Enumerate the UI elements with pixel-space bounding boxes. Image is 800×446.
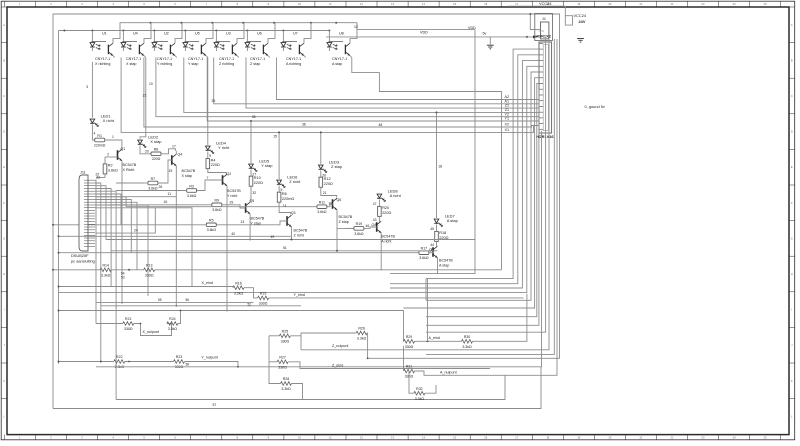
svg-text:25: 25 [212, 99, 216, 103]
svg-text:A_eind: A_eind [429, 336, 440, 340]
svg-text:R31: R31 [406, 365, 413, 369]
svg-text:R26: R26 [358, 327, 365, 331]
svg-text:X richting: X richting [95, 62, 110, 66]
led LED6 Z richt [277, 180, 282, 184]
wire Q2 emitter [226, 186, 228, 311]
svg-text:R22: R22 [116, 355, 123, 359]
svg-text:Z stap: Z stap [331, 164, 343, 169]
wire X_eind [59, 286, 234, 288]
resistor R24 3.3k [167, 322, 178, 326]
svg-text:Q4: Q4 [178, 153, 183, 157]
resistor R27 330 [277, 360, 288, 364]
svg-text:BC547B: BC547B [294, 229, 308, 233]
svg-text:330Ω: 330Ω [405, 345, 414, 349]
wire Q2 collector [226, 173, 228, 175]
wire Z_eind row [269, 361, 277, 363]
svg-text:R7: R7 [151, 177, 156, 181]
led LED5 Y stap [249, 164, 254, 168]
wire J1 pin1 feed [530, 14, 536, 30]
svg-text:330Ω: 330Ω [281, 339, 290, 343]
svg-text:330Ω: 330Ω [124, 327, 133, 331]
svg-text:BC547B: BC547B [251, 217, 265, 221]
svg-text:Q6: Q6 [337, 198, 342, 202]
wire VDD J1 feed [326, 36, 537, 38]
resistor R14 3.3k [100, 268, 111, 272]
wire R3 left [116, 190, 187, 192]
wire Q1 base [105, 156, 118, 158]
svg-text:BC547B: BC547B [381, 235, 395, 239]
wire row 366 [96, 131, 542, 367]
wire anode rail [59, 30, 330, 32]
wire R2 bottom [96, 177, 105, 179]
wire Q8 emitter [380, 233, 382, 270]
svg-text:X richt: X richt [103, 118, 115, 123]
svg-text:35: 35 [252, 115, 256, 119]
wire LED2 to R8 [140, 146, 151, 154]
svg-text:E: E [791, 165, 793, 169]
svg-text:X1: X1 [504, 128, 509, 132]
svg-text:3.6kΩ: 3.6kΩ [212, 208, 222, 212]
svg-text:3.3kΩ: 3.3kΩ [101, 273, 111, 277]
svg-text:4: 4 [94, 132, 96, 136]
optocoupler U4 CNY17-1 X stap [122, 31, 124, 42]
wire Q4 collector [175, 151, 177, 154]
wire pin feed [426, 89, 539, 325]
junction [242, 22, 244, 24]
wire pin feed [426, 49, 539, 279]
resistor R3 3.6k [187, 189, 197, 193]
wire R13 right [155, 269, 502, 271]
svg-text:A: A [791, 23, 793, 27]
transistor Q5 BC547B [245, 203, 247, 213]
svg-text:X_nulpunt: X_nulpunt [142, 330, 159, 334]
svg-text:220mΩ: 220mΩ [282, 197, 294, 201]
wire row 306 [101, 305, 301, 307]
svg-text:Z stap: Z stap [250, 62, 260, 66]
wire row 399 [116, 375, 505, 399]
svg-text:32: 32 [252, 191, 256, 195]
svg-text:R23: R23 [176, 355, 183, 359]
ground top middle [487, 44, 494, 46]
svg-text:BC547B: BC547B [439, 259, 453, 263]
wire LED4 to R4 [207, 152, 209, 159]
svg-text:A richting: A richting [286, 62, 301, 66]
wire Z_nulpunt loop [290, 333, 356, 336]
svg-text:220mΩ: 220mΩ [94, 143, 106, 147]
wire Y_nulpunt [59, 361, 114, 363]
wire feed a [352, 58, 502, 270]
svg-text:CNY17-1: CNY17-1 [250, 57, 265, 61]
svg-text:56: 56 [186, 298, 190, 302]
led LED7 A stap [434, 219, 439, 223]
svg-text:CNY17-1: CNY17-1 [188, 57, 203, 61]
resistor R5 3.6k [206, 223, 216, 227]
svg-text:3.3kΩ: 3.3kΩ [415, 397, 425, 401]
svg-text:2: 2 [107, 152, 109, 156]
junction [91, 30, 93, 32]
wire bus A1 [214, 58, 539, 104]
svg-text:R20: R20 [382, 206, 389, 210]
wire pin feed [426, 72, 539, 300]
wire DSUB fan [95, 180, 96, 323]
junction [122, 30, 124, 32]
svg-text:R21: R21 [125, 317, 132, 321]
svg-text:Z stap: Z stap [339, 220, 349, 224]
svg-text:Y_nulpunt: Y_nulpunt [201, 355, 218, 359]
svg-text:10: 10 [149, 82, 153, 86]
resistor R6 220m [277, 192, 281, 202]
resistor R29 330 [404, 340, 415, 344]
wire R20 to Q8 [378, 216, 380, 221]
wire Q6 emitter [336, 210, 338, 251]
transistor Q4 BC547B [171, 155, 173, 165]
wire bend 354 [426, 39, 554, 354]
svg-text:220Ω: 220Ω [324, 182, 333, 186]
wire bus X1 [121, 58, 539, 133]
svg-text:BC547B: BC547B [339, 215, 353, 219]
svg-text:CNY17-1: CNY17-1 [219, 57, 234, 61]
junction [335, 22, 337, 24]
svg-text:X Richt: X Richt [123, 168, 135, 172]
svg-text:BC547B: BC547B [182, 169, 196, 173]
svg-text:48: 48 [379, 123, 383, 127]
wire Q4 base [158, 160, 172, 183]
svg-text:3.6kΩ: 3.6kΩ [207, 228, 217, 232]
junction [63, 30, 65, 32]
wire Q3 emitter [291, 227, 293, 240]
resistor R18 220 [435, 231, 439, 241]
transistor Q7 BC547B [432, 247, 434, 257]
svg-text:5v: 5v [483, 31, 487, 35]
wire A_eind [415, 340, 462, 342]
svg-text:H: H [791, 272, 793, 276]
svg-text:H: H [3, 272, 5, 276]
resistor R19 3.6k [354, 227, 364, 231]
svg-text:B: B [3, 58, 5, 62]
svg-text:15: 15 [273, 135, 277, 139]
svg-text:VCC24: VCC24 [539, 1, 552, 6]
svg-text:U8: U8 [339, 32, 344, 36]
svg-text:3.3kΩ: 3.3kΩ [281, 387, 291, 391]
resistor R20 220 [378, 206, 382, 216]
resistor R8 220 [151, 152, 161, 156]
svg-text:3.3kΩ: 3.3kΩ [462, 345, 472, 349]
wire pin feed [426, 83, 539, 316]
svg-text:45: 45 [430, 227, 434, 231]
resistor R11 3.6k [317, 205, 327, 209]
wire bus A2 [277, 58, 540, 100]
wire R30 right [473, 294, 527, 342]
svg-text:R25: R25 [282, 329, 289, 333]
svg-text:CNY17-1: CNY17-1 [95, 57, 110, 61]
wire Q4 emitter [175, 166, 177, 306]
svg-text:36: 36 [302, 123, 306, 127]
wire Q7 base [429, 251, 433, 254]
svg-text:20: 20 [145, 149, 149, 153]
wire A_nulpunt [415, 39, 558, 375]
svg-text:53: 53 [121, 276, 125, 280]
svg-text:X2: X2 [504, 123, 509, 127]
svg-text:U6: U6 [257, 32, 262, 36]
led LED2 X stap [138, 140, 143, 144]
wire VCC24 top loop [508, 5, 565, 7]
svg-text:Q1: Q1 [121, 147, 126, 151]
optocoupler U6 CNY17-1 Z stap [246, 31, 248, 42]
wire A vert 426b [425, 279, 427, 301]
svg-text:A: A [3, 23, 5, 27]
wire Q8 base [364, 227, 376, 228]
wire R7 left [116, 182, 144, 184]
resistor R16 3.3k [233, 286, 244, 290]
svg-text:51: 51 [283, 246, 287, 250]
wire R24 right [178, 311, 181, 324]
svg-text:R6: R6 [282, 192, 287, 196]
resistor R31 330 [404, 369, 415, 373]
svg-text:10: 10 [328, 202, 332, 206]
svg-text:Z_eind: Z_eind [332, 363, 343, 367]
svg-text:BC547B: BC547B [123, 163, 137, 167]
svg-text:A stap: A stap [439, 264, 449, 268]
svg-text:U4: U4 [133, 32, 138, 36]
wire Y_eind [269, 297, 524, 299]
wire Q7 collector [437, 245, 438, 247]
svg-text:44: 44 [430, 243, 434, 247]
resistor R15 330 [258, 296, 269, 300]
svg-text:7: 7 [207, 176, 209, 180]
wire pin feed [59, 66, 540, 292]
svg-text:K: K [3, 379, 5, 383]
svg-text:Y_eind: Y_eind [294, 293, 305, 297]
wire R5 left [53, 224, 206, 226]
optocoupler U3 CNY17-1 Z richting [215, 31, 217, 42]
svg-text:R1: R1 [97, 134, 102, 138]
svg-text:A richt: A richt [381, 240, 391, 244]
svg-text:R11: R11 [319, 201, 325, 205]
wire A_eind row [402, 340, 404, 342]
wire pin feed [390, 55, 539, 284]
wire Q1 emitter [121, 161, 123, 303]
svg-text:R13: R13 [146, 263, 153, 267]
svg-text:16: 16 [164, 200, 168, 204]
wire bus Y2 [156, 58, 539, 117]
wire Q7 emitter [437, 258, 439, 274]
svg-text:X stap: X stap [150, 139, 162, 144]
junction [184, 30, 186, 32]
wire LED1 to R1 [92, 125, 94, 141]
svg-text:BC547B: BC547B [227, 189, 241, 193]
resistor R13 330 [144, 268, 155, 272]
svg-text:330Ω: 330Ω [278, 365, 287, 369]
svg-text:Q2: Q2 [227, 172, 232, 176]
resistor R26 3.3k [356, 331, 367, 335]
svg-text:49: 49 [271, 235, 275, 239]
wire pin feed [390, 61, 539, 288]
wire LED3 to R12 [320, 171, 322, 178]
optocoupler U2 CNY17-1 Y richting [153, 31, 155, 42]
wire A stap loop [390, 30, 475, 274]
connector J11 DSUB25F [79, 175, 88, 251]
svg-text:13: 13 [241, 220, 245, 224]
svg-text:3.6kΩ: 3.6kΩ [354, 232, 364, 236]
wire Q5 base [222, 205, 246, 208]
svg-text:D: D [791, 130, 793, 134]
svg-text:330Ω: 330Ω [259, 302, 268, 306]
svg-text:17: 17 [172, 144, 176, 148]
wire R19 left [345, 227, 353, 229]
svg-text:A_nulpunt: A_nulpunt [440, 371, 457, 375]
resistor R23 330 [174, 360, 185, 364]
svg-text:29: 29 [230, 200, 234, 204]
wire LED7 feed [436, 112, 438, 218]
wire LED6 to R6 [278, 186, 280, 193]
svg-text:U3: U3 [226, 32, 231, 36]
svg-text:R27: R27 [279, 355, 286, 359]
wire row 310 [59, 311, 404, 342]
wire LED8 to R20 [378, 200, 380, 207]
wire A vert 427 [427, 279, 429, 342]
svg-text:U5: U5 [195, 32, 200, 36]
svg-text:40: 40 [231, 232, 235, 236]
svg-text:R32: R32 [416, 387, 423, 391]
svg-text:3: 3 [86, 85, 88, 89]
transistor Q2 BC547B [222, 175, 224, 185]
svg-text:Y1: Y1 [504, 117, 509, 121]
svg-text:R8: R8 [154, 148, 159, 152]
svg-text:R19: R19 [356, 222, 363, 226]
resistor R4 220 [206, 159, 210, 169]
svg-text:3.3kΩ: 3.3kΩ [234, 291, 244, 295]
wire VDD sheet loop [53, 14, 560, 409]
svg-text:VDD: VDD [420, 31, 428, 35]
svg-text:3.6kΩ: 3.6kΩ [419, 256, 429, 260]
svg-text:0, gound 5v: 0, gound 5v [585, 104, 605, 109]
resistor R2 3.6k [103, 164, 107, 174]
svg-text:U2: U2 [164, 32, 169, 36]
svg-text:19: 19 [169, 169, 173, 173]
svg-text:R10: R10 [254, 176, 261, 180]
svg-text:330Ω: 330Ω [145, 273, 154, 277]
svg-text:24V: 24V [579, 19, 586, 24]
svg-text:G: G [791, 236, 793, 240]
svg-text:X stap: X stap [182, 174, 192, 178]
wire R4 to Q2 [208, 169, 227, 175]
resistor R28 3.3k [281, 382, 292, 386]
svg-text:21: 21 [143, 93, 147, 97]
wire pin feed [404, 78, 540, 308]
svg-text:3.3kΩ: 3.3kΩ [168, 327, 178, 331]
svg-text:Q3: Q3 [291, 211, 296, 215]
wire R12 to Q6 [321, 187, 337, 197]
svg-text:11: 11 [168, 192, 172, 196]
svg-text:X stap: X stap [126, 62, 136, 66]
svg-text:U1: U1 [102, 32, 107, 36]
junction [282, 30, 284, 32]
junction [153, 30, 155, 32]
svg-text:pc aansluiting: pc aansluiting [71, 259, 95, 264]
svg-text:22: 22 [96, 175, 100, 179]
wire row 302 [96, 302, 254, 304]
svg-text:55: 55 [158, 298, 162, 302]
junction [246, 30, 248, 32]
svg-text:Y stap: Y stap [261, 163, 273, 168]
svg-text:E: E [3, 165, 5, 169]
svg-text:Z richting: Z richting [219, 62, 234, 66]
svg-text:CNY17-1: CNY17-1 [126, 57, 141, 61]
resistor R32 3.3k [414, 391, 425, 395]
wire Z_eind [288, 362, 490, 369]
svg-text:U7: U7 [293, 32, 298, 36]
wire R31 R32 link [409, 371, 414, 393]
svg-text:R29: R29 [406, 335, 413, 339]
wire Q3 base [216, 221, 287, 225]
svg-text:12: 12 [354, 25, 358, 29]
wire LED6 feed [278, 132, 280, 179]
wire bus Y1 [207, 58, 539, 122]
wire Q5 emitter [249, 214, 251, 240]
svg-text:3.6kΩ: 3.6kΩ [148, 186, 158, 190]
svg-text:Z richt: Z richt [289, 179, 301, 184]
svg-text:R3: R3 [189, 184, 194, 188]
junction [180, 22, 182, 24]
wire R17 left [59, 252, 419, 254]
svg-text:9: 9 [209, 154, 211, 158]
transistor Q6 BC547B [332, 199, 334, 209]
resistor R9 3.6k [212, 203, 222, 207]
svg-text:26: 26 [159, 185, 163, 189]
wire R27 R28 link [269, 362, 281, 384]
svg-text:DSUB25F: DSUB25F [71, 253, 89, 258]
ground right [577, 38, 584, 40]
led LED4 Y richt [206, 146, 211, 150]
optocoupler U5 CNY17-1 Y stap [184, 31, 186, 42]
wire R1 to Q1 [105, 140, 122, 149]
wire net 51 [111, 250, 437, 252]
svg-text:Z richt: Z richt [294, 234, 304, 238]
wire left drop [58, 31, 60, 364]
wire bend 332 [426, 39, 546, 332]
svg-text:R24: R24 [169, 317, 176, 321]
resistor R12 220 [319, 177, 323, 187]
svg-text:K: K [791, 379, 793, 383]
svg-text:R4: R4 [211, 158, 216, 162]
wire Q6 base [327, 204, 333, 207]
wire R22 R23 [125, 361, 174, 363]
wire R8 to Q4 [161, 149, 176, 154]
wire R14 R13 [111, 269, 144, 271]
svg-text:Q8: Q8 [371, 223, 376, 227]
led LED3 Z stap [319, 165, 324, 169]
svg-text:3.6kΩ: 3.6kΩ [187, 194, 197, 198]
svg-text:R2: R2 [108, 164, 113, 168]
svg-text:Z_nulpunt: Z_nulpunt [332, 344, 348, 348]
junction [310, 22, 312, 24]
svg-text:3.6kΩ: 3.6kΩ [108, 169, 118, 173]
wire U4 emitter drop [140, 58, 146, 139]
svg-text:Y richt: Y richt [227, 194, 237, 198]
svg-text:C: C [791, 94, 793, 98]
wire R19 stub [337, 227, 353, 229]
wire bus Z1 [184, 58, 539, 113]
svg-text:J1: J1 [542, 17, 546, 21]
svg-text:A stap: A stap [447, 218, 459, 223]
junction [328, 30, 330, 32]
svg-text:57: 57 [213, 403, 217, 407]
svg-text:14: 14 [283, 204, 287, 208]
svg-text:G: G [3, 236, 5, 240]
wire R10 to Q5 [249, 186, 252, 199]
svg-text:3.6kΩ: 3.6kΩ [317, 210, 327, 214]
svg-text:3.3kΩ: 3.3kΩ [357, 337, 367, 341]
